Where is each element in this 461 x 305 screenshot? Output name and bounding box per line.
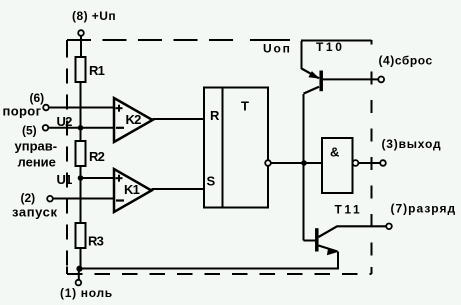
ground node junction [76,266,82,272]
pin 5 terminal uprav [15,124,58,170]
svg-text:T11: T11 [335,203,363,217]
op-amp comparator K2 [114,98,153,142]
node U1 and wire to K1 plus input [57,172,115,187]
svg-text:&: & [330,144,339,159]
svg-text:(2): (2) [21,191,36,205]
svg-text:U1: U1 [57,172,73,187]
pin 6 terminal porog [3,91,49,119]
transistor T11 [304,203,387,270]
wire K2 output to R input [153,118,205,120]
svg-text:(8) +Uп: (8) +Uп [72,9,116,23]
trigger output terminal circle [265,160,271,166]
wire T10 collector down to node and T11 base [303,94,305,241]
op-amp comparator K1 [114,169,152,212]
resistor R2 [76,141,105,166]
svg-text:(3)выход: (3)выход [382,137,442,151]
node at T10 collector / T11 base [301,160,307,166]
wire R2 to R3 [80,166,82,223]
svg-text:R1: R1 [89,63,105,78]
svg-text:S: S [207,174,216,189]
wire K1 output to S input [152,188,205,190]
pin 8 terminal (8) +Un [72,9,116,36]
wire pin5 to K2 minus input, node U2 [48,114,114,131]
svg-text:U2: U2 [57,114,73,129]
wire and gate output to pin 3 [359,162,381,164]
svg-text:R3: R3 [88,234,104,249]
pin 1 terminal nol [60,269,113,301]
svg-text:(7)разряд: (7)разряд [391,202,457,216]
wire pin8 to R1 [80,36,82,57]
IC boundary dashed box [67,40,372,274]
svg-text:T10: T10 [316,40,344,54]
svg-text:порог: порог [3,104,42,119]
svg-text:(5): (5) [22,124,37,138]
svg-text:запуск: запуск [12,204,58,219]
svg-text:R2: R2 [89,149,105,164]
wire R3 to ground node [80,248,82,269]
svg-text:управ-: управ- [15,138,58,153]
svg-text:R: R [210,108,220,123]
wire pin6 to K2 plus input [49,107,114,109]
pin 7 terminal razryad [386,202,456,230]
wire pin2 to K1 minus input [53,198,114,200]
wire T10 base to pin 4 [323,78,378,80]
pin 4 terminal sbros [378,53,432,82]
wire trigger output to and-gate input [271,162,322,164]
trigger T block [204,88,268,208]
svg-text:T: T [241,99,249,114]
pin 2 terminal zapusk [12,191,58,219]
svg-text:(1) ноль: (1) ноль [60,286,113,300]
transistor T10 [302,40,345,94]
and gate [322,138,358,193]
resistor R3 [76,223,104,249]
resistor R1 [76,57,105,82]
ground wire [80,268,338,270]
svg-text:(4)сброс: (4)сброс [379,53,433,67]
svg-text:ление: ление [18,155,56,170]
svg-text:K2: K2 [126,112,142,127]
pin 3 terminal vyhod [380,137,441,166]
wire R1 to R2 [80,82,82,141]
svg-text:Uоп: Uоп [263,42,292,56]
svg-text:K1: K1 [124,182,140,197]
